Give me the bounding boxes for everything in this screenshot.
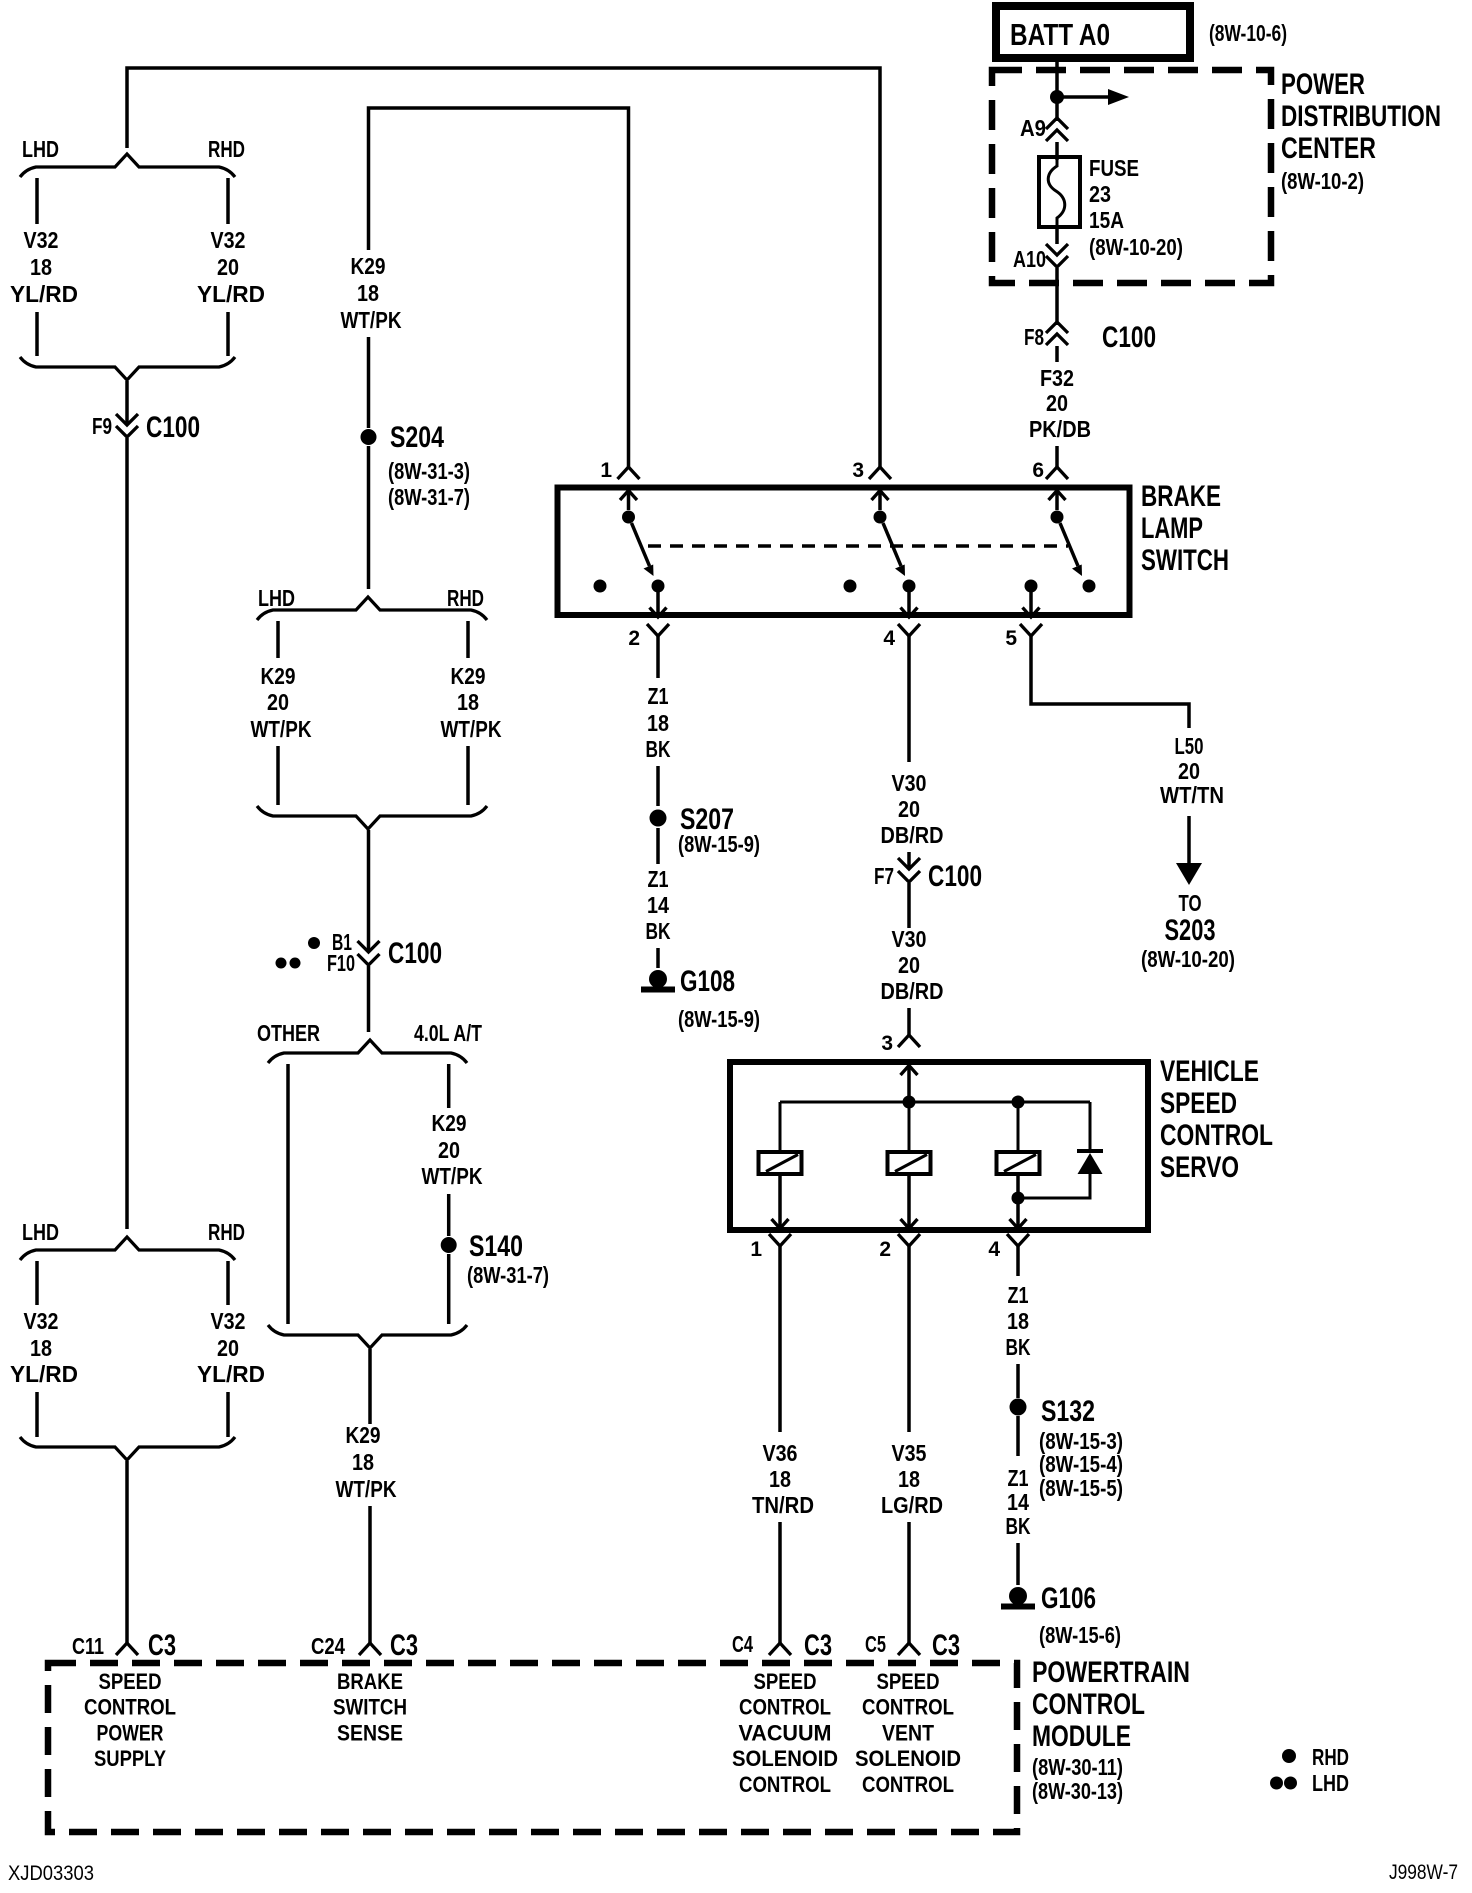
- wire below F7: [907, 883, 911, 928]
- svg-text:CONTROL: CONTROL: [84, 1695, 176, 1720]
- svg-text:(8W-10-20): (8W-10-20): [1141, 946, 1235, 972]
- wire RHD stub (middle): [466, 621, 470, 658]
- switch contact (moving target, pin 4): [903, 580, 916, 593]
- splice S132: [1010, 1399, 1027, 1416]
- svg-text:L50: L50: [1175, 733, 1204, 759]
- svg-text:20: 20: [1178, 758, 1200, 784]
- wire below S204: [367, 446, 371, 589]
- svg-text:WT/PK: WT/PK: [422, 1163, 483, 1189]
- wire to PCM pin C24: [368, 1506, 372, 1643]
- svg-text:Z1: Z1: [648, 866, 669, 892]
- brake lamp switch box: [558, 488, 1130, 616]
- svg-text:V30: V30: [892, 926, 927, 952]
- svg-text:18: 18: [30, 1335, 52, 1361]
- svg-text:VEHICLE: VEHICLE: [1160, 1055, 1259, 1088]
- split brace LHD/RHD (middle): [257, 597, 487, 620]
- svg-text:CONTROL: CONTROL: [739, 1695, 831, 1720]
- svg-text:FUSE: FUSE: [1089, 155, 1139, 181]
- connector terminal A9: [1046, 118, 1068, 129]
- svg-text:14: 14: [647, 892, 669, 918]
- solenoid coil (pin 4): [997, 1152, 1040, 1174]
- wire to ground G106: [1016, 1543, 1020, 1585]
- svg-text:BK: BK: [646, 736, 671, 762]
- wire V35 from servo pin 2: [907, 1246, 911, 1432]
- wire F8 down: [1055, 346, 1059, 362]
- wire Z1 from servo pin 4: [1016, 1246, 1020, 1276]
- svg-text:WT/PK: WT/PK: [341, 307, 402, 333]
- svg-text:TO: TO: [1179, 890, 1202, 916]
- wire V36 from servo pin 1: [778, 1246, 782, 1432]
- svg-text:POWER: POWER: [97, 1720, 164, 1745]
- svg-text:C5: C5: [865, 1631, 886, 1657]
- svg-text:S204: S204: [390, 421, 444, 454]
- wire RHD branch stub: [226, 178, 230, 224]
- svg-text:18: 18: [30, 254, 52, 280]
- wire RHD lower stub (middle): [466, 746, 470, 805]
- svg-text:CONTROL: CONTROL: [1160, 1119, 1273, 1152]
- svg-text:20: 20: [267, 689, 289, 715]
- svg-text:V32: V32: [211, 227, 246, 253]
- svg-text:C100: C100: [928, 860, 982, 893]
- svg-text:4.0L A/T: 4.0L A/T: [414, 1020, 482, 1046]
- diode (clamp): [1089, 1102, 1092, 1151]
- svg-text:2: 2: [879, 1238, 891, 1261]
- wire below merge: [368, 1349, 372, 1424]
- svg-text:SWITCH: SWITCH: [333, 1695, 407, 1720]
- splice S207: [650, 810, 667, 827]
- wire bus to solenoid (pin 1): [779, 1102, 782, 1152]
- switch blade 6 with arrow: [1060, 523, 1078, 566]
- switch contact (open, left of pin 2): [594, 580, 607, 593]
- svg-text:20: 20: [438, 1137, 460, 1163]
- wire K29 to splice S204: [367, 337, 371, 428]
- svg-text:SPEED: SPEED: [877, 1669, 940, 1694]
- wire to splice S207: [656, 766, 660, 806]
- svg-text:C100: C100: [1102, 321, 1156, 354]
- svg-text:CENTER: CENTER: [1281, 132, 1376, 165]
- svg-text:14: 14: [1007, 1489, 1029, 1515]
- wire feed from K29 column to brake lamp switch pin 1: [369, 108, 629, 467]
- solenoid coil (pin 2): [888, 1152, 931, 1174]
- wire LHD lower stub: [35, 1392, 39, 1437]
- switch contact (moving target, pin 2): [652, 580, 665, 593]
- internal bus wire: [780, 1101, 1090, 1104]
- box BATT A0: [996, 6, 1190, 58]
- node junction with right arrow: [1050, 90, 1064, 104]
- wire to OTHER/4.0L split: [367, 966, 371, 1032]
- wire fuse to A10: [1055, 227, 1059, 244]
- wire top feed from pin 3 column to left LHD/RHD split: [127, 68, 880, 467]
- vehicle speed control servo box: [730, 1062, 1148, 1230]
- node solenoid3/diode junction: [1012, 1192, 1025, 1205]
- svg-text:(8W-30-11): (8W-30-11): [1032, 1754, 1123, 1780]
- svg-text:18: 18: [769, 1466, 791, 1492]
- connector F9 C100 (in-line): [116, 414, 138, 425]
- wire LHD stub (middle): [276, 621, 280, 658]
- svg-text:V32: V32: [24, 1308, 59, 1334]
- svg-text:YL/RD: YL/RD: [197, 1361, 265, 1387]
- wire LHD lower stub (middle): [276, 746, 280, 805]
- svg-text:CONTROL: CONTROL: [862, 1772, 954, 1797]
- svg-text:3: 3: [852, 459, 864, 482]
- wire to splice S132: [1016, 1364, 1020, 1398]
- svg-text:(8W-30-13): (8W-30-13): [1032, 1778, 1123, 1804]
- svg-text:18: 18: [647, 710, 669, 736]
- switch blade 3-4 with arrow: [883, 523, 901, 566]
- connector pin C24 of PCM: [359, 1643, 381, 1655]
- svg-text:YL/RD: YL/RD: [197, 281, 265, 307]
- wire pin 4 exit: [907, 592, 911, 617]
- svg-text:BRAKE: BRAKE: [1141, 480, 1221, 513]
- connector pin C11 of PCM: [116, 1643, 138, 1655]
- svg-text:C3: C3: [148, 1629, 176, 1662]
- svg-text:F9: F9: [92, 413, 112, 439]
- svg-text:V30: V30: [892, 770, 927, 796]
- solenoid coil (pin 1): [759, 1152, 802, 1174]
- wire below S207: [656, 828, 660, 864]
- merge brace (bottom left): [20, 1437, 235, 1460]
- svg-text:18: 18: [1007, 1308, 1029, 1334]
- svg-text:C4: C4: [732, 1631, 753, 1657]
- wire to PCM pin C5: [907, 1522, 911, 1643]
- dashed mechanical link line: [648, 544, 1068, 547]
- svg-text:C3: C3: [804, 1629, 832, 1662]
- svg-text:A9: A9: [1020, 115, 1046, 141]
- svg-text:SPEED: SPEED: [99, 1669, 162, 1694]
- svg-text:SENSE: SENSE: [337, 1720, 403, 1745]
- svg-text:V35: V35: [892, 1440, 927, 1466]
- svg-text:RHD: RHD: [447, 585, 484, 611]
- merge brace OTHER/4.0L: [268, 1325, 467, 1348]
- svg-text:1: 1: [600, 459, 612, 482]
- svg-text:RHD: RHD: [208, 136, 245, 162]
- wire bus to solenoid (pin 4): [1017, 1102, 1020, 1152]
- node bus/solenoid3 junction: [1012, 1096, 1025, 1109]
- svg-text:K29: K29: [351, 253, 386, 279]
- svg-text:WT/TN: WT/TN: [1160, 782, 1224, 808]
- wire BATT A0 to fuse: [1055, 58, 1059, 121]
- connector pin C5 of PCM: [898, 1643, 920, 1655]
- svg-text:WT/PK: WT/PK: [251, 716, 312, 742]
- svg-text:F32: F32: [1040, 365, 1074, 391]
- wire RHD stub: [226, 1261, 230, 1305]
- svg-text:15A: 15A: [1089, 207, 1124, 233]
- powertrain control module dashed box: [48, 1663, 1017, 1832]
- wire solenoid to pin 4 exit: [1016, 1174, 1020, 1228]
- wire bus to solenoid (pin 2): [908, 1102, 911, 1152]
- wire LHD branch lower stub: [35, 312, 39, 356]
- svg-text:F10: F10: [327, 950, 355, 976]
- svg-text:(8W-15-6): (8W-15-6): [1039, 1622, 1121, 1648]
- svg-text:4: 4: [988, 1238, 1000, 1261]
- svg-text:(8W-15-5): (8W-15-5): [1039, 1475, 1123, 1501]
- wire to brake lamp switch pin 6: [1055, 446, 1059, 467]
- svg-text:CONTROL: CONTROL: [862, 1695, 954, 1720]
- svg-text:TN/RD: TN/RD: [752, 1492, 814, 1518]
- svg-text:SUPPLY: SUPPLY: [94, 1746, 166, 1771]
- connector B1/F10 C100 (in-line): [358, 941, 380, 952]
- split brace LHD/RHD (bottom left): [20, 1237, 235, 1260]
- svg-text:S140: S140: [469, 1230, 523, 1263]
- connector pin C4 of PCM: [769, 1643, 791, 1655]
- switch contact (fixed, pin 1): [622, 511, 635, 524]
- svg-text:23: 23: [1089, 181, 1111, 207]
- svg-text:BK: BK: [1006, 1334, 1031, 1360]
- svg-text:S203: S203: [1165, 914, 1216, 947]
- svg-text:SOLENOID: SOLENOID: [732, 1746, 838, 1771]
- split brace LHD/RHD (top left): [20, 154, 235, 177]
- wire A9 to fuse: [1055, 142, 1059, 160]
- svg-text:LG/RD: LG/RD: [881, 1492, 943, 1518]
- svg-text:C3: C3: [932, 1629, 960, 1662]
- svg-text:OTHER: OTHER: [257, 1020, 320, 1046]
- svg-text:WT/PK: WT/PK: [441, 716, 502, 742]
- legend RHD: [1282, 1749, 1296, 1763]
- svg-text:XJD03303: XJD03303: [8, 1862, 94, 1885]
- svg-text:20: 20: [217, 254, 239, 280]
- wire to PCM pin C11: [125, 1461, 129, 1643]
- svg-text:20: 20: [898, 796, 920, 822]
- svg-text:(8W-15-9): (8W-15-9): [678, 831, 760, 857]
- connector terminal A10: [1046, 244, 1068, 255]
- wire pin 5 exit: [1029, 592, 1033, 617]
- wire to ground G108: [656, 948, 660, 968]
- switch contact (moving target, right): [1083, 580, 1096, 593]
- svg-text:SERVO: SERVO: [1160, 1151, 1239, 1184]
- wire V30 from pin 4: [907, 636, 911, 762]
- fuse 23 15A: [1039, 157, 1080, 227]
- wire below S140: [447, 1254, 451, 1324]
- svg-text:LHD: LHD: [258, 585, 295, 611]
- wire with arrow to S203: [1187, 816, 1191, 866]
- wire to connector F9: [125, 381, 129, 425]
- merge brace (top left): [20, 357, 235, 380]
- svg-text:18: 18: [457, 689, 479, 715]
- svg-text:G108: G108: [680, 965, 735, 998]
- svg-text:C100: C100: [388, 937, 442, 970]
- switch contact (fixed, pin 5): [1025, 580, 1038, 593]
- svg-text:C3: C3: [390, 1629, 418, 1662]
- wire RHD lower stub: [226, 1392, 230, 1437]
- wire below S132: [1016, 1416, 1020, 1456]
- wire OTHER branch: [286, 1064, 290, 1324]
- wire LHD stub: [35, 1261, 39, 1305]
- svg-text:6: 6: [1032, 459, 1044, 482]
- svg-text:K29: K29: [346, 1422, 381, 1448]
- svg-text:DB/RD: DB/RD: [881, 822, 944, 848]
- switch contact (open, left of pin 4): [844, 580, 857, 593]
- legend LHD: [1270, 1777, 1283, 1790]
- wire 4.0L A/T branch upper stub: [447, 1064, 451, 1108]
- svg-text:(8W-31-3): (8W-31-3): [388, 458, 470, 484]
- svg-text:MODULE: MODULE: [1032, 1720, 1131, 1753]
- wire to servo pin 3: [907, 1008, 911, 1035]
- wire pin 2 exit: [656, 592, 660, 617]
- svg-text:YL/RD: YL/RD: [10, 1361, 78, 1387]
- svg-text:LHD: LHD: [22, 1219, 59, 1245]
- svg-text:RHD: RHD: [208, 1219, 245, 1245]
- wire to connector B1/F10: [367, 830, 371, 952]
- svg-text:BK: BK: [1006, 1513, 1031, 1539]
- svg-text:LHD: LHD: [22, 136, 59, 162]
- svg-text:C11: C11: [72, 1633, 104, 1659]
- svg-text:Z1: Z1: [1008, 1465, 1029, 1491]
- wire RHD branch lower stub: [226, 312, 230, 356]
- svg-text:RHD: RHD: [1312, 1744, 1349, 1770]
- svg-text:VENT: VENT: [882, 1720, 934, 1745]
- svg-text:4: 4: [883, 627, 895, 650]
- splice S204: [361, 429, 377, 445]
- svg-text:20: 20: [1046, 390, 1068, 416]
- svg-text:18: 18: [357, 280, 379, 306]
- wire pin 3 to internal bus: [907, 1066, 911, 1103]
- switch contact (fixed, pin 6): [1051, 511, 1064, 524]
- svg-text:CONTROL: CONTROL: [1032, 1688, 1145, 1721]
- svg-text:C100: C100: [146, 411, 200, 444]
- svg-text:(8W-15-9): (8W-15-9): [678, 1006, 760, 1032]
- wire L50 from pin 5: [1031, 636, 1189, 728]
- svg-text:F8: F8: [1024, 324, 1044, 350]
- power distribution center dashed box: [992, 70, 1271, 283]
- switch contact (fixed, pin 3): [874, 511, 887, 524]
- svg-text:V32: V32: [24, 227, 59, 253]
- svg-text:J998W-7: J998W-7: [1389, 1861, 1458, 1884]
- svg-text:1: 1: [750, 1238, 762, 1261]
- svg-text:20: 20: [898, 952, 920, 978]
- svg-text:3: 3: [881, 1032, 893, 1055]
- svg-text:BRAKE: BRAKE: [337, 1669, 403, 1694]
- svg-text:18: 18: [352, 1449, 374, 1475]
- svg-text:SOLENOID: SOLENOID: [855, 1746, 961, 1771]
- svg-text:K29: K29: [432, 1110, 467, 1136]
- svg-text:(8W-15-4): (8W-15-4): [1039, 1451, 1123, 1477]
- wire solenoid to pin 1 exit: [778, 1174, 782, 1228]
- wire LHD branch stub: [35, 178, 39, 224]
- svg-text:POWER: POWER: [1281, 68, 1365, 101]
- connector F8 C100 (in-line): [1046, 322, 1068, 333]
- svg-text:2: 2: [628, 627, 640, 650]
- svg-text:V32: V32: [211, 1308, 246, 1334]
- wire solenoid to pin 2 exit: [907, 1174, 911, 1228]
- svg-text:SPEED: SPEED: [754, 1669, 817, 1694]
- svg-text:A10: A10: [1013, 246, 1046, 272]
- svg-text:PK/DB: PK/DB: [1029, 416, 1091, 442]
- svg-text:(8W-31-7): (8W-31-7): [467, 1262, 549, 1288]
- svg-text:(8W-31-7): (8W-31-7): [388, 484, 470, 510]
- svg-text:18: 18: [898, 1466, 920, 1492]
- svg-text:DISTRIBUTION: DISTRIBUTION: [1281, 100, 1441, 133]
- svg-text:S132: S132: [1041, 1395, 1095, 1428]
- wire Z1 from pin 2: [656, 636, 660, 678]
- svg-text:YL/RD: YL/RD: [10, 281, 78, 307]
- switch blade 1-2 with arrow: [632, 523, 650, 566]
- svg-text:DB/RD: DB/RD: [881, 978, 944, 1004]
- svg-text:VACUUM: VACUUM: [739, 1720, 832, 1745]
- svg-text:LHD: LHD: [1312, 1770, 1349, 1796]
- split brace OTHER / 4.0L A/T: [268, 1040, 467, 1063]
- node bus/solenoid2 junction: [903, 1096, 916, 1109]
- svg-text:Z1: Z1: [648, 683, 669, 709]
- wire A10 through PDC edge to F8: [1055, 268, 1059, 325]
- wire long vertical to second split: [125, 438, 129, 1229]
- svg-text:POWERTRAIN: POWERTRAIN: [1032, 1656, 1190, 1689]
- svg-text:G106: G106: [1041, 1582, 1096, 1615]
- svg-text:BK: BK: [646, 918, 671, 944]
- connector F7 C100 (in-line): [898, 858, 920, 869]
- svg-text:CONTROL: CONTROL: [739, 1772, 831, 1797]
- svg-text:LAMP: LAMP: [1141, 512, 1203, 545]
- svg-text:K29: K29: [261, 663, 296, 689]
- svg-text:(8W-10-6): (8W-10-6): [1209, 20, 1287, 46]
- svg-text:(8W-10-20): (8W-10-20): [1089, 234, 1183, 260]
- svg-text:BATT A0: BATT A0: [1010, 17, 1110, 52]
- wire to connector F7: [907, 852, 911, 869]
- svg-text:K29: K29: [451, 663, 486, 689]
- wire to PCM pin C4: [778, 1522, 782, 1643]
- svg-text:(8W-10-2): (8W-10-2): [1281, 168, 1364, 194]
- svg-text:WT/PK: WT/PK: [336, 1476, 397, 1502]
- ground G108: [641, 970, 675, 993]
- svg-text:SWITCH: SWITCH: [1141, 544, 1229, 577]
- ground G106: [1001, 1587, 1035, 1610]
- svg-text:Z1: Z1: [1008, 1282, 1029, 1308]
- svg-text:C24: C24: [311, 1633, 345, 1659]
- svg-text:SPEED: SPEED: [1160, 1087, 1237, 1120]
- svg-text:F7: F7: [874, 863, 894, 889]
- svg-text:20: 20: [217, 1335, 239, 1361]
- svg-text:5: 5: [1005, 627, 1017, 650]
- merge brace (middle): [257, 806, 487, 829]
- svg-text:V36: V36: [763, 1440, 798, 1466]
- wire to splice S140: [447, 1194, 451, 1236]
- splice S140: [441, 1237, 457, 1253]
